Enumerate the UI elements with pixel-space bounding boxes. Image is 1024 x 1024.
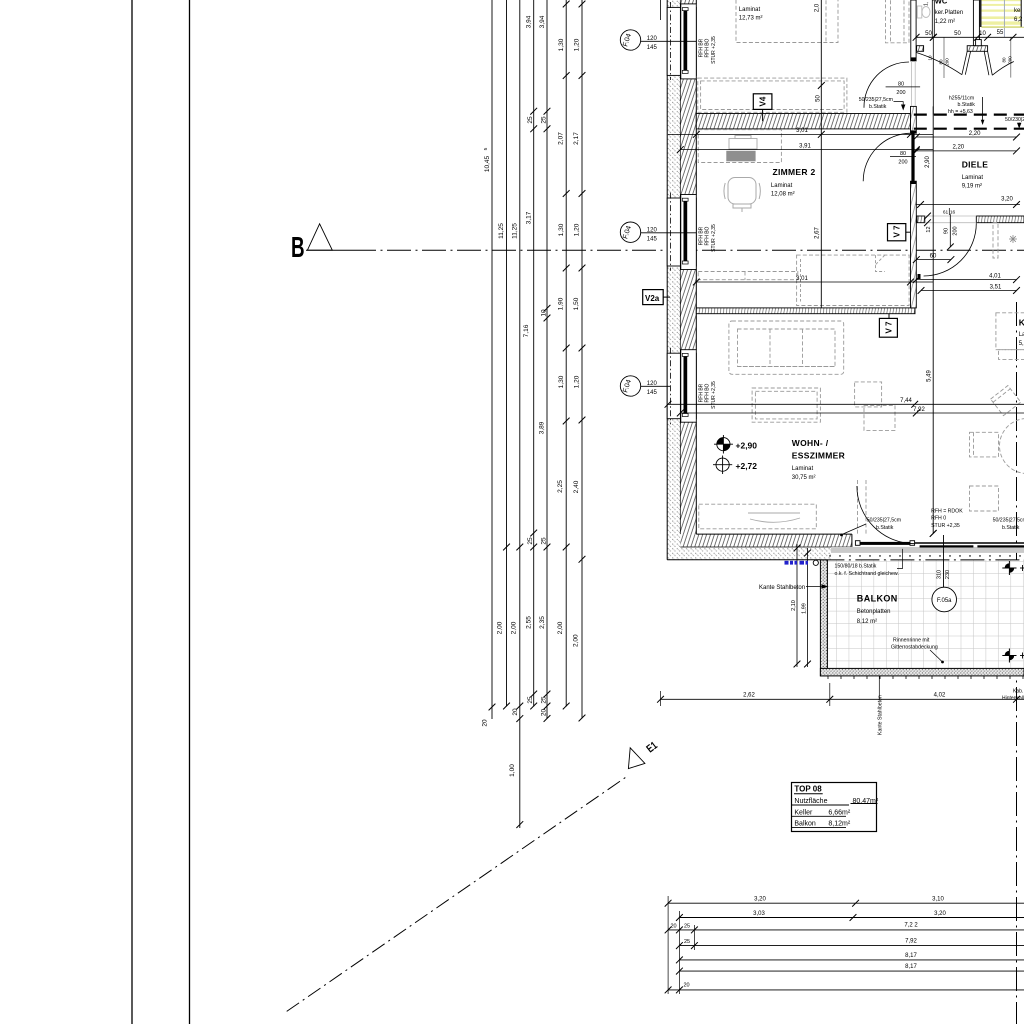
survey cross 1	[1002, 561, 1024, 575]
svg-text:80: 80	[939, 59, 944, 65]
svg-text:La: La	[1019, 332, 1024, 338]
BALKON room label	[857, 594, 898, 625]
svg-text:80: 80	[1002, 57, 1007, 63]
cupboard Z1 right	[886, 0, 910, 43]
svg-text:ker.Platten: ker.Platten	[935, 10, 963, 16]
wall WC east thin	[932, 0, 934, 37]
stairs yellow treads	[982, 0, 1022, 28]
door swing DIELE/KUECHE	[924, 223, 977, 276]
svg-text:Laminat: Laminat	[792, 466, 814, 472]
dim 3,20 DIELE	[916, 204, 1020, 206]
svg-text:200: 200	[952, 226, 958, 235]
chain labels	[482, 15, 581, 777]
svg-text:ESSZIMMER: ESSZIMMER	[792, 451, 845, 461]
dotted slab edge	[829, 555, 1021, 557]
svg-text:b.Statik: b.Statik	[1002, 525, 1020, 531]
svg-text:Betonplatten: Betonplatten	[857, 609, 891, 615]
balcony edge comb marks	[828, 676, 1023, 679]
svg-text:+2,90: +2,90	[736, 440, 758, 450]
svg-text:20: 20	[541, 709, 548, 717]
corridor dim 50 50 10 55	[916, 36, 1024, 38]
balcony inner dims 2,10 / 1,99	[797, 544, 808, 667]
svg-text:2,55: 2,55	[526, 616, 533, 629]
svg-text:7,44: 7,44	[900, 398, 912, 404]
svg-text:7,2 2: 7,2 2	[904, 922, 918, 928]
bottom horizontal dimension chains	[668, 896, 1024, 994]
svg-text:25: 25	[684, 923, 690, 929]
svg-text:1,22 m²: 1,22 m²	[935, 19, 955, 25]
window F.04 no.1	[667, 2, 696, 80]
tv sideboard WOHN	[699, 504, 817, 529]
section marker B	[291, 224, 332, 264]
wall WC east extension	[932, 37, 934, 114]
svg-text:120: 120	[647, 381, 658, 387]
door frame lines corridor	[943, 37, 945, 78]
svg-text:2,00: 2,00	[573, 634, 580, 647]
svg-text:V 7: V 7	[893, 225, 902, 238]
svg-text:2,00: 2,00	[497, 621, 504, 634]
sofa WOHN	[729, 321, 844, 374]
door jambs Z2 door	[911, 130, 917, 133]
svg-text:Hinterwall auf: Hinterwall auf	[1002, 696, 1024, 702]
svg-text:o.k. f. Schichtrand gleichew.: o.k. f. Schichtrand gleichew.	[835, 571, 899, 577]
svg-text:50/235|27,5cm: 50/235|27,5cm	[993, 518, 1024, 524]
svg-text:2,25: 2,25	[557, 480, 564, 493]
vertical dimension chain 1	[492, 0, 582, 828]
svg-text:20: 20	[670, 923, 676, 929]
svg-text:25: 25	[527, 696, 534, 704]
svg-text:ZIMMER 2: ZIMMER 2	[773, 167, 816, 177]
window F.04 no.2	[667, 193, 696, 271]
wall Z1/Z2	[696, 114, 910, 129]
dim 80/200 fraction bath door	[886, 86, 921, 88]
wall label V7 lower	[879, 314, 897, 337]
svg-text:200: 200	[945, 58, 950, 66]
extension line top	[660, 0, 662, 20]
svg-text:25: 25	[684, 939, 690, 945]
svg-text:Nutzfläche: Nutzfläche	[794, 798, 827, 805]
svg-text:Keller: Keller	[794, 809, 813, 816]
svg-text:STUR +2,35: STUR +2,35	[711, 36, 717, 64]
wall Z2/WOHN thin partition	[696, 308, 915, 314]
sheet border line 1	[131, 0, 133, 1024]
svg-text:3,51: 3,51	[990, 284, 1002, 290]
dim 12 small	[924, 213, 931, 220]
wall stair side	[973, 0, 979, 46]
svg-text:20: 20	[512, 708, 519, 716]
svg-text:hh = +5,63: hh = +5,63	[948, 109, 973, 115]
svg-text:2,62: 2,62	[743, 693, 755, 699]
window marker F.04 no.1	[620, 30, 696, 51]
window marker F.05a	[932, 587, 957, 612]
rotated sturz texts window2	[699, 224, 718, 252]
door over-dash balcony door	[857, 480, 859, 534]
wall label V2a	[643, 290, 670, 305]
balcony axis dash-dot top	[820, 559, 1024, 561]
svg-text:2,0: 2,0	[815, 3, 821, 12]
section line E (diagonal dash-dot)	[287, 776, 627, 1011]
svg-text:11,25: 11,25	[498, 223, 505, 239]
svg-text:2,20: 2,20	[969, 131, 981, 137]
sideboard Z2	[698, 272, 798, 280]
dim 80/200 fraction Z2 door	[890, 156, 916, 158]
svg-text:25: 25	[527, 537, 534, 545]
svg-text:60: 60	[930, 253, 937, 259]
svg-text:STUR +2,35: STUR +2,35	[711, 224, 717, 252]
svg-text:7,16: 7,16	[523, 324, 530, 337]
svg-text:10: 10	[541, 309, 548, 317]
svg-text:10: 10	[979, 31, 986, 37]
door swing bath	[864, 62, 909, 108]
svg-text:90: 90	[944, 228, 950, 234]
svg-text:2,90: 2,90	[925, 156, 931, 168]
svg-text:B: B	[291, 232, 305, 264]
svg-text:3,01: 3,01	[796, 128, 808, 134]
svg-text:200: 200	[898, 160, 907, 166]
svg-text:Balkon: Balkon	[794, 821, 816, 828]
wall DIELE/KUECHE	[976, 216, 1024, 223]
level marker +2,90	[714, 435, 757, 454]
door width marks rotated	[928, 55, 1013, 66]
svg-text:3,89: 3,89	[539, 421, 546, 434]
svg-text:1,20: 1,20	[574, 375, 581, 388]
svg-text:120: 120	[647, 227, 658, 233]
svg-text:1,: 1,	[924, 2, 930, 6]
svg-text:50: 50	[815, 95, 821, 102]
dim 2,20 lines DIELE	[916, 136, 1016, 138]
svg-text:50: 50	[954, 31, 961, 37]
svg-text:310: 310	[936, 570, 942, 579]
svg-text:TOP 08: TOP 08	[794, 785, 822, 794]
svg-text:10: 10	[928, 55, 933, 61]
svg-text:3,94: 3,94	[526, 15, 533, 28]
svg-text:7,92: 7,92	[905, 938, 917, 944]
svg-text:3,94: 3,94	[539, 15, 546, 28]
section line vertical right (dash-dot)	[1016, 302, 1018, 1024]
svg-text:1,90: 1,90	[558, 297, 565, 310]
svg-text:b.Statik: b.Statik	[958, 102, 976, 108]
svg-text:b.Statik: b.Statik	[876, 525, 894, 531]
level marker +2,72	[713, 456, 757, 475]
survey cross 2	[1002, 649, 1024, 663]
svg-text:50/235|27,5cm: 50/235|27,5cm	[859, 97, 893, 103]
svg-text:7,92: 7,92	[913, 407, 925, 413]
svg-text:3,01: 3,01	[796, 276, 808, 282]
svg-text:Laminat: Laminat	[771, 183, 793, 189]
corridor door stub A	[917, 46, 924, 52]
section line B (dash-dot horizontal)	[306, 249, 352, 251]
printer on desk Z2	[729, 136, 757, 150]
svg-text:8,17: 8,17	[905, 964, 917, 970]
wall south-east lines	[915, 542, 1024, 544]
svg-text:1,20: 1,20	[574, 223, 581, 236]
dim vertical x=933 (5,49)	[932, 106, 934, 533]
svg-text:3,17: 3,17	[526, 211, 533, 224]
dim vertical x=821 (2,67)	[820, 0, 822, 308]
dim 3,01 upper	[668, 133, 933, 135]
blue annotation	[785, 561, 809, 565]
svg-text:1,00: 1,00	[509, 764, 516, 777]
svg-text:200: 200	[896, 90, 905, 96]
svg-text:3,03: 3,03	[753, 911, 765, 917]
door swing stairs flat arc	[992, 62, 1014, 76]
svg-text:ke: ke	[1014, 8, 1021, 14]
dim 90/200 door kueche	[949, 214, 951, 247]
svg-text:10,45: 10,45	[484, 155, 491, 172]
svg-text:6,2: 6,2	[1014, 17, 1023, 23]
exterior wall west: concrete layer	[680, 0, 696, 534]
corridor walls dashed (beam over)	[914, 113, 1024, 115]
svg-text:KÜ: KÜ	[1019, 318, 1024, 328]
svg-text:2,20: 2,20	[952, 145, 964, 151]
svg-text:RFH BO: RFH BO	[705, 38, 711, 57]
balcony border south	[820, 668, 1024, 676]
svg-text:50/235|27,5cm: 50/235|27,5cm	[867, 518, 901, 524]
svg-text:200: 200	[1008, 56, 1013, 64]
svg-text:145: 145	[647, 237, 658, 243]
door swing balcony door	[857, 486, 915, 544]
svg-text:20: 20	[683, 982, 689, 988]
door leaf WC funnel	[962, 51, 967, 74]
svg-text:BALKON: BALKON	[857, 594, 898, 604]
svg-text:6,66m²: 6,66m²	[828, 809, 850, 816]
door leaf stairs funnel	[984, 51, 989, 75]
wardrobe band Z1	[698, 78, 847, 112]
svg-text:RFH BO: RFH BO	[705, 383, 711, 402]
svg-text:Kante Stahlbeton: Kante Stahlbeton	[878, 695, 884, 735]
window marker F.04 no.3	[620, 376, 670, 396]
svg-text:50/230|2: 50/230|2	[1005, 117, 1024, 123]
wall border lines	[667, 0, 852, 560]
svg-text:1,50: 1,50	[573, 297, 580, 310]
svg-text:2,00: 2,00	[557, 621, 564, 634]
svg-text:55: 55	[997, 30, 1004, 36]
furniture group (gray dashed)	[698, 0, 1024, 534]
chairs WOHN right	[855, 382, 882, 407]
wall Z2/DIELE	[911, 106, 917, 133]
exterior wall west: insulation layer	[667, 0, 680, 547]
exterior wall south: insulation	[667, 547, 831, 560]
wall WC west	[911, 0, 916, 61]
bed Z2	[797, 255, 910, 305]
svg-text:V2a: V2a	[645, 294, 660, 303]
svg-text:80: 80	[900, 151, 906, 157]
svg-text:25: 25	[527, 116, 534, 124]
svg-text:3,10: 3,10	[932, 897, 944, 903]
dim 3,91	[680, 149, 933, 151]
svg-text:2,40: 2,40	[573, 480, 580, 493]
small cross marker kueche	[1009, 235, 1017, 243]
svg-text:8,17: 8,17	[905, 953, 917, 959]
svg-text:150/80/18 b.Statik: 150/80/18 b.Statik	[835, 563, 877, 569]
svg-text:2,17: 2,17	[573, 132, 580, 145]
svg-text:h255/11cm: h255/11cm	[949, 96, 974, 102]
svg-text:230: 230	[945, 570, 951, 579]
svg-text:Kante Stahlbeton: Kante Stahlbeton	[759, 585, 805, 591]
svg-text:WC: WC	[935, 0, 948, 6]
svg-text:120: 120	[647, 36, 658, 42]
corridor door stub B	[967, 46, 987, 52]
window marker F.04 no.2	[620, 222, 696, 243]
svg-text:1,20: 1,20	[574, 38, 581, 51]
svg-text:RFH 0: RFH 0	[931, 516, 946, 522]
bath door frame gray lines	[911, 61, 913, 106]
dim 60	[916, 259, 951, 261]
door swing WC flat arc	[916, 53, 962, 75]
rotated sturz texts window1	[699, 36, 718, 64]
svg-text:61: 61	[943, 210, 949, 216]
chain tick marks	[489, 1, 586, 828]
svg-text:5: 5	[483, 147, 489, 150]
svg-text:Laminat: Laminat	[962, 175, 984, 181]
svg-text:5,49: 5,49	[927, 370, 933, 382]
svg-text:Gitterrostabdeckung: Gitterrostabdeckung	[891, 644, 938, 650]
svg-text:b.Statik: b.Statik	[869, 104, 887, 110]
desk Z2	[698, 130, 781, 163]
svg-text:25: 25	[541, 696, 548, 704]
dining table + chairs	[1000, 419, 1024, 474]
svg-text:25: 25	[541, 116, 548, 124]
svg-text:9,19 m²: 9,19 m²	[962, 184, 982, 190]
dim 4,01	[916, 279, 1016, 281]
svg-text:2,07: 2,07	[558, 132, 565, 145]
rotated sturz texts window3	[699, 381, 718, 409]
svg-text:1,99: 1,99	[801, 603, 807, 614]
svg-text:8,12m²: 8,12m²	[828, 821, 850, 828]
svg-text:2,67: 2,67	[815, 227, 821, 239]
svg-text:+2,72: +2,72	[736, 461, 758, 471]
balcony border west	[820, 560, 827, 676]
door leaf Z2 (open, along wall)	[911, 133, 914, 181]
svg-text:16: 16	[950, 210, 956, 216]
dim 3,51	[921, 290, 1017, 292]
dim line below balcony 2,62 / 4,02	[661, 698, 1024, 700]
svg-text:4,02: 4,02	[934, 693, 946, 699]
coffee table WOHN	[752, 388, 820, 422]
svg-text:145: 145	[647, 45, 658, 51]
svg-text:3,20: 3,20	[754, 897, 766, 903]
TOP 08 table	[792, 783, 879, 832]
office chair Z2	[724, 178, 760, 213]
svg-text:F.05a: F.05a	[937, 598, 952, 604]
wall label V7 upper	[888, 224, 911, 241]
dim 7,44 line	[668, 403, 1024, 405]
svg-text:Rinnenrinne mit: Rinnenrinne mit	[893, 637, 930, 643]
svg-text:4,01: 4,01	[989, 273, 1001, 279]
svg-text:2,10: 2,10	[791, 600, 797, 611]
svg-text:1,30: 1,30	[558, 223, 565, 236]
balcony slab tiles	[827, 560, 1024, 669]
svg-text:Kab.: Kab.	[1013, 689, 1023, 695]
svg-text:11,25: 11,25	[512, 223, 519, 239]
svg-text:5,6: 5,6	[1019, 341, 1024, 347]
window F.04 no.3	[667, 348, 696, 424]
bed room Z1	[736, 0, 838, 43]
wall label V4	[753, 94, 772, 121]
svg-text:2,35: 2,35	[539, 616, 546, 629]
door swing Z2	[863, 133, 911, 181]
svg-text:30,75 m²: 30,75 m²	[792, 475, 816, 481]
svg-text:1,30: 1,30	[558, 375, 565, 388]
svg-text:1,30: 1,30	[558, 38, 565, 51]
svg-text:80: 80	[898, 81, 904, 87]
svg-text:145: 145	[647, 390, 658, 396]
exterior wall south: concrete	[680, 534, 852, 547]
svg-text:3,20: 3,20	[1001, 197, 1013, 203]
svg-text:3,20: 3,20	[934, 911, 946, 917]
svg-text:8,12 m²: 8,12 m²	[857, 619, 877, 625]
svg-text:25: 25	[541, 537, 548, 545]
svg-text:V4: V4	[759, 96, 768, 106]
threshold gray band	[831, 547, 1024, 553]
dim 3,01 lower	[696, 281, 933, 283]
WC toilet	[917, 6, 930, 18]
svg-text:2,00: 2,00	[511, 621, 518, 634]
svg-text:RFH = RDOK: RFH = RDOK	[931, 509, 963, 515]
svg-text:STUR +2,35: STUR +2,35	[931, 523, 960, 529]
svg-text:3,91: 3,91	[799, 143, 811, 149]
svg-text:50: 50	[925, 31, 932, 37]
svg-text:Laminat: Laminat	[739, 7, 761, 13]
svg-text:RFH BO: RFH BO	[705, 226, 711, 245]
svg-text:20: 20	[482, 719, 489, 727]
sheet border line 2	[189, 0, 191, 1024]
balcony door sill	[857, 542, 915, 545]
svg-text:12,08 m²: 12,08 m²	[771, 191, 795, 197]
svg-text:WOHN- /: WOHN- /	[792, 438, 829, 448]
dim 7,92 line	[680, 412, 1024, 414]
svg-text:12,73 m²: 12,73 m²	[739, 16, 763, 22]
svg-text:12: 12	[926, 226, 932, 232]
svg-text:V 7: V 7	[884, 321, 893, 334]
svg-text:DIELE: DIELE	[962, 160, 989, 170]
kitchen counter dashed	[996, 313, 1024, 350]
section marker E1 triangle	[628, 748, 645, 769]
